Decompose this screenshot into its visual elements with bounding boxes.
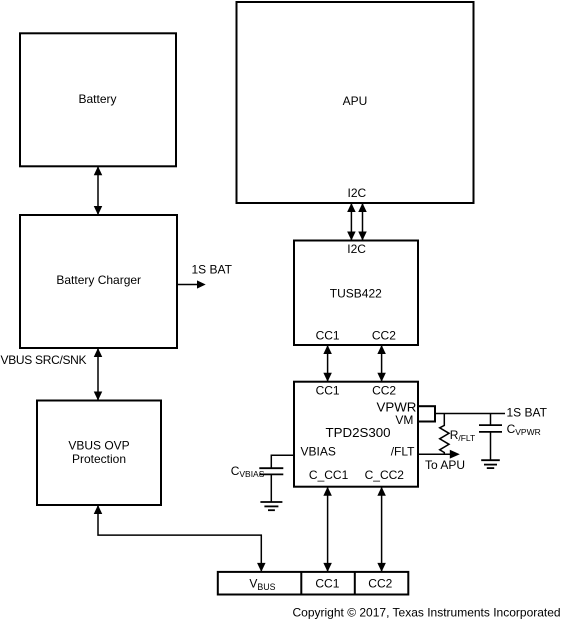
svg-text:VBUS OVP: VBUS OVP: [68, 438, 129, 452]
wire TUSB422 CC2 to TPD2S300 CC2 double arrow: [377, 345, 386, 382]
svg-text:1S BAT: 1S BAT: [192, 262, 233, 276]
svg-text:CC2: CC2: [368, 577, 392, 591]
resistor R/FLT: [440, 414, 449, 455]
wire APU to TUSB422 I2C double arrow 2: [358, 203, 367, 241]
svg-text:To APU: To APU: [425, 458, 465, 472]
svg-text:VM: VM: [395, 413, 413, 427]
block TPD2S300: [294, 382, 418, 487]
svg-text:CC1: CC1: [316, 329, 340, 343]
wire VPWR to 1S BAT: [435, 413, 505, 415]
block Battery: [20, 33, 176, 166]
svg-text:CC1: CC1: [315, 577, 339, 591]
svg-text:Battery Charger: Battery Charger: [56, 273, 141, 287]
svg-text:CC1: CC1: [316, 383, 340, 397]
block APU: [237, 2, 474, 203]
svg-text:C_CC1: C_CC1: [309, 468, 349, 482]
svg-text:I2C: I2C: [347, 242, 366, 256]
block Battery Charger: [20, 215, 177, 348]
wire TUSB422 CC1 to TPD2S300 CC1 double arrow: [323, 345, 332, 382]
block VBUS OVP Protection: [37, 401, 161, 506]
svg-text:Protection: Protection: [72, 452, 126, 466]
divider CC1/CC2: [354, 572, 356, 595]
svg-text:VBIAS: VBIAS: [301, 444, 336, 458]
wire APU to TUSB422 I2C double arrow 1: [347, 203, 356, 241]
wire Battery to Battery Charger double arrow: [94, 166, 103, 215]
svg-text:APU: APU: [343, 94, 368, 108]
capacitor C_VPWR: [479, 414, 502, 461]
wire VBUS OVP to receptacle VBUS path: [94, 505, 266, 572]
svg-text:CC2: CC2: [372, 329, 396, 343]
svg-text:TPD2S300: TPD2S300: [325, 425, 390, 440]
ground (C_VPWR): [481, 460, 500, 468]
svg-text:C_CC2: C_CC2: [365, 468, 405, 482]
svg-text:Battery: Battery: [78, 92, 116, 106]
connector VPWR/VM stub rectangle: [418, 406, 435, 421]
svg-text:Copyright © 2017, Texas Instru: Copyright © 2017, Texas Instruments Inco…: [293, 606, 561, 620]
wire Battery Charger to 1S BAT arrow: [177, 280, 206, 288]
svg-text:I2C: I2C: [348, 186, 367, 200]
wire VBIAS to C_VBIAS: [271, 455, 294, 468]
svg-text:VBUS SRC/SNK: VBUS SRC/SNK: [1, 353, 87, 367]
svg-text:/FLT: /FLT: [391, 444, 415, 458]
wire /FLT to APU arrow: [418, 450, 460, 459]
svg-text:TUSB422: TUSB422: [330, 287, 382, 301]
wire TPD2S300 C_CC2 to receptacle CC2 double arrow: [377, 487, 386, 572]
wire TPD2S300 C_CC1 to receptacle CC1 double arrow: [323, 487, 332, 572]
svg-text:1S BAT: 1S BAT: [507, 406, 548, 420]
connector receptacle row: [218, 572, 408, 595]
block TUSB422: [294, 241, 418, 346]
wire Battery Charger to VBUS OVP double arrow: [94, 348, 103, 401]
ground (C_VBIAS): [260, 502, 282, 510]
svg-text:CC2: CC2: [372, 383, 396, 397]
divider VBUS/CC1: [300, 572, 302, 595]
capacitor C_VBIAS: [259, 468, 283, 502]
